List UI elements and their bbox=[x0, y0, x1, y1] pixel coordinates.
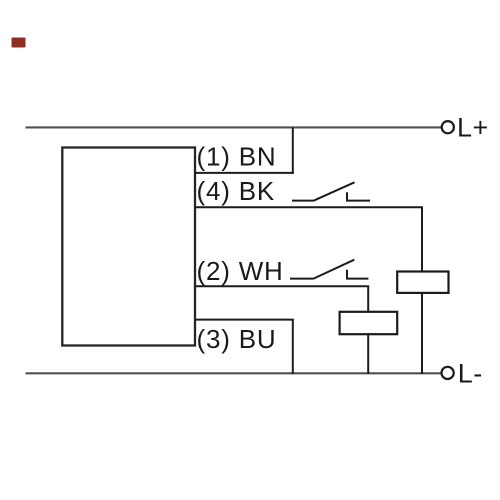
switch S1 blade bbox=[313, 182, 355, 201]
wire L+ rail bbox=[26, 126, 442, 128]
wire WH horizontal bbox=[195, 285, 369, 287]
switch S2 contact bbox=[346, 270, 368, 279]
wire R2 to L- rail bbox=[367, 334, 369, 374]
terminal L+ bbox=[442, 121, 454, 133]
wire BK vertical to load R1 bbox=[421, 207, 423, 271]
svg-text:(1) BN: (1) BN bbox=[197, 142, 277, 172]
switch S2 blade bbox=[313, 260, 354, 279]
wire BU vertical to L- bbox=[292, 320, 294, 374]
wire L- rail bbox=[26, 372, 442, 374]
load R2 bbox=[340, 312, 398, 334]
wire BK horizontal bbox=[195, 206, 423, 208]
wire WH vertical to load R2 bbox=[367, 286, 369, 312]
svg-text:(2) WH: (2) WH bbox=[197, 256, 284, 286]
switch S2 lead bbox=[290, 278, 313, 280]
svg-text:L-: L- bbox=[458, 358, 483, 388]
svg-text:(3) BU: (3) BU bbox=[197, 324, 277, 354]
svg-text:L+: L+ bbox=[457, 113, 489, 143]
wire BN horizontal bbox=[195, 172, 294, 174]
wire R1 to L- rail bbox=[421, 293, 423, 374]
terminal L- bbox=[442, 367, 454, 379]
switch S1 lead bbox=[292, 200, 313, 202]
load R1 bbox=[397, 272, 448, 293]
wire BN vertical to L+ bbox=[292, 127, 294, 173]
sensor body U1 bbox=[62, 148, 195, 346]
switch S1 contact bbox=[346, 192, 370, 200]
wire BU horizontal bbox=[195, 319, 294, 321]
svg-text:(4) BK: (4) BK bbox=[197, 176, 275, 206]
red mark bbox=[12, 38, 26, 48]
